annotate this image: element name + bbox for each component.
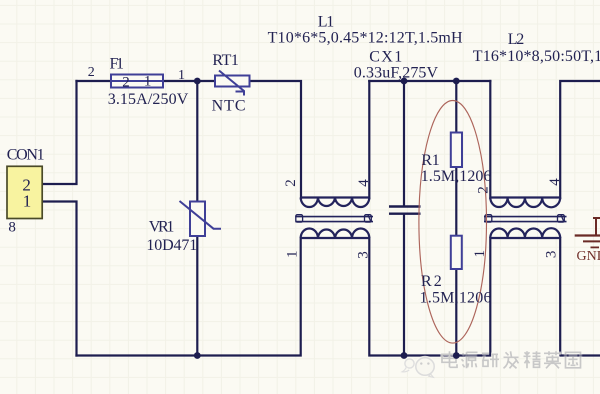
svg-text:F1: F1 bbox=[110, 56, 125, 73]
svg-text:3: 3 bbox=[544, 251, 560, 259]
svg-text:10D471: 10D471 bbox=[146, 237, 197, 254]
svg-text:T16*10*8,50:50T,1.5mH: T16*10*8,50:50T,1.5mH bbox=[473, 48, 600, 65]
svg-text:2: 2 bbox=[476, 186, 492, 194]
svg-text:GND: GND bbox=[577, 249, 600, 264]
svg-text:1.5M,1206: 1.5M,1206 bbox=[421, 168, 492, 185]
svg-text:VR1: VR1 bbox=[149, 219, 175, 236]
svg-text:2: 2 bbox=[88, 65, 95, 80]
svg-text:4: 4 bbox=[547, 178, 563, 186]
svg-text:L2: L2 bbox=[508, 31, 524, 48]
svg-text:R2: R2 bbox=[421, 273, 442, 290]
svg-text:3: 3 bbox=[355, 251, 371, 259]
svg-text:4: 4 bbox=[356, 179, 372, 187]
svg-text:R1: R1 bbox=[421, 152, 439, 169]
svg-text:NTC: NTC bbox=[212, 98, 246, 115]
svg-text:1: 1 bbox=[178, 68, 185, 83]
svg-text:1: 1 bbox=[472, 250, 488, 257]
svg-text:1.5M,1206: 1.5M,1206 bbox=[420, 290, 492, 307]
svg-text:1: 1 bbox=[23, 192, 32, 211]
svg-text:T10*6*5,0.45*12:12T,1.5mH: T10*6*5,0.45*12:12T,1.5mH bbox=[268, 30, 463, 47]
svg-text:1: 1 bbox=[144, 74, 152, 90]
svg-text:1: 1 bbox=[284, 251, 300, 258]
svg-text:RT1: RT1 bbox=[212, 52, 239, 69]
svg-text:2: 2 bbox=[283, 179, 299, 187]
svg-text:3.15A/250V: 3.15A/250V bbox=[108, 91, 189, 108]
svg-text:CX1: CX1 bbox=[369, 49, 402, 66]
svg-text:L1: L1 bbox=[318, 14, 335, 31]
svg-text:CON1: CON1 bbox=[7, 147, 45, 164]
svg-text:2: 2 bbox=[122, 74, 130, 90]
svg-text:8: 8 bbox=[8, 220, 16, 236]
svg-text:0.33uF,275V: 0.33uF,275V bbox=[354, 65, 439, 82]
